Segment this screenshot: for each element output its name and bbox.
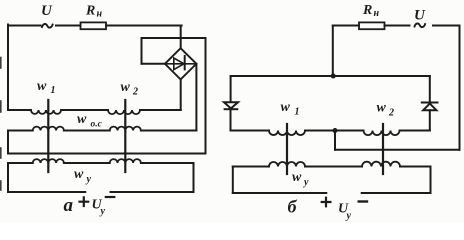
wire jog to bridge left vertex — [142, 63, 165, 65]
wire jog left vertical — [141, 38, 143, 64]
wire top-left vertical to center tap node — [332, 26, 334, 77]
svg-text:у: у — [346, 211, 352, 222]
wire top after resistor — [385, 25, 410, 27]
winding w_y1 (bumps above) — [269, 162, 305, 167]
wire row2 middle — [64, 130, 110, 132]
wire right diode bottom lead — [429, 110, 431, 130]
wire row3 right — [141, 162, 194, 164]
wire row right — [400, 166, 431, 168]
wire control bottom right — [111, 191, 194, 193]
wire row1 right — [140, 109, 181, 111]
svg-text:w: w — [37, 79, 47, 94]
wire right rail vertical — [459, 26, 461, 150]
wire left diode top lead — [230, 76, 232, 102]
winding w_oc right half — [110, 127, 141, 131]
winding w_oc left half — [33, 127, 64, 131]
svg-text:у: у — [100, 206, 106, 217]
AC source tilde (right) — [415, 23, 426, 27]
core 1 (left circuit left core) — [47, 100, 49, 172]
svg-text:R: R — [362, 3, 372, 18]
svg-text:н: н — [97, 9, 103, 20]
AC source tilde symbol — [42, 24, 53, 28]
svg-text:у: у — [303, 177, 309, 188]
scan edge artifacts — [0, 58, 2, 191]
svg-text:w: w — [377, 101, 387, 116]
wire bridge DC jog top horizontal — [142, 37, 206, 39]
wire row3 left — [8, 162, 33, 164]
winding w1 (right circuit, bumps below) — [269, 131, 305, 136]
wire control bottom left — [8, 191, 85, 193]
wire row3 middle — [64, 162, 110, 164]
svg-text:R: R — [85, 4, 95, 19]
wire control bottom right — [362, 192, 431, 194]
wire right diode top lead — [429, 76, 431, 102]
core 3 (right circuit left core) — [286, 124, 288, 174]
svg-text:1: 1 — [295, 107, 300, 118]
wire return horizontal to right rail — [335, 149, 460, 151]
wire control loop right vertical — [193, 163, 195, 192]
svg-text:1: 1 — [51, 85, 56, 96]
wire row right — [400, 130, 430, 132]
wire row middle through tap — [305, 130, 364, 132]
wire top to bridge — [106, 25, 182, 27]
minus sign (right U_y) — [359, 200, 367, 202]
winding w2 (right circuit, bumps below) — [364, 131, 400, 136]
svg-text:у: у — [86, 174, 92, 185]
wire anode bus horizontal — [231, 75, 430, 77]
wire top right segment — [433, 25, 460, 27]
minus sign (left U_y) — [106, 196, 115, 198]
junction dot (center tap) — [333, 128, 338, 133]
svg-text:U: U — [414, 8, 426, 24]
wire control left vertical — [232, 167, 234, 194]
diode VD1 (left, pointing down) — [224, 102, 238, 109]
winding w_y right half — [110, 159, 141, 163]
svg-text:w: w — [281, 100, 291, 115]
svg-text:w: w — [292, 170, 302, 185]
core 4 (right circuit right core) — [382, 124, 384, 174]
bridge inner diode — [167, 56, 195, 70]
wire top horizontal (right) — [333, 25, 359, 27]
svg-text:w: w — [74, 167, 84, 182]
svg-text:w: w — [121, 80, 131, 95]
wire top-left horizontal AC segment — [8, 25, 81, 27]
wire bridge right vertex down to feedback row — [195, 64, 197, 131]
wire row1 left — [8, 109, 31, 111]
winding w2 (right core, bumps below) — [108, 110, 140, 114]
svg-text:w: w — [77, 112, 87, 127]
winding w_y2 (bumps above) — [362, 162, 400, 167]
wire row1 middle — [61, 109, 108, 111]
wire control bottom left — [233, 192, 326, 194]
wire feedback left bracket vertical — [7, 131, 9, 154]
wire row left — [233, 166, 269, 168]
plus sign (right U_y) — [322, 198, 331, 207]
wire bridge bottom to working winding row — [180, 79, 182, 110]
wire control loop left vertical — [7, 163, 9, 192]
plus sign (left U_y) — [80, 197, 89, 206]
core 2 (left circuit right core) — [124, 100, 126, 172]
junction dot (anode bus) — [331, 74, 336, 79]
resistor R_H (left) — [81, 22, 107, 29]
svg-text:б: б — [288, 197, 298, 217]
wire feedback return horizontal — [8, 153, 206, 155]
wire control right vertical — [430, 167, 432, 194]
svg-text:2: 2 — [388, 108, 394, 119]
svg-text:о.с: о.с — [91, 119, 103, 129]
wire jog right vertical to feedback return — [205, 38, 207, 154]
working row (right): wire left — [231, 130, 270, 132]
wire center tap branch vertical — [334, 131, 336, 150]
winding w_y left half — [33, 159, 64, 163]
wire left vertical — [7, 25, 9, 111]
svg-text:н: н — [374, 8, 380, 19]
svg-text:U: U — [41, 3, 53, 19]
wire row middle — [305, 166, 362, 168]
wire bridge top feed vertical — [180, 26, 182, 49]
wire row2 left — [8, 130, 33, 132]
wire row2 right — [141, 130, 197, 132]
resistor R_H (right) — [359, 22, 385, 29]
svg-text:2: 2 — [132, 87, 138, 98]
svg-text:а: а — [64, 195, 74, 216]
diode bridge VD (diamond) — [165, 48, 197, 79]
winding w1 (left core, bumps below) — [31, 110, 61, 114]
diode VD2 (right, pointing up) — [422, 103, 438, 111]
wire left diode bottom lead — [230, 109, 232, 130]
